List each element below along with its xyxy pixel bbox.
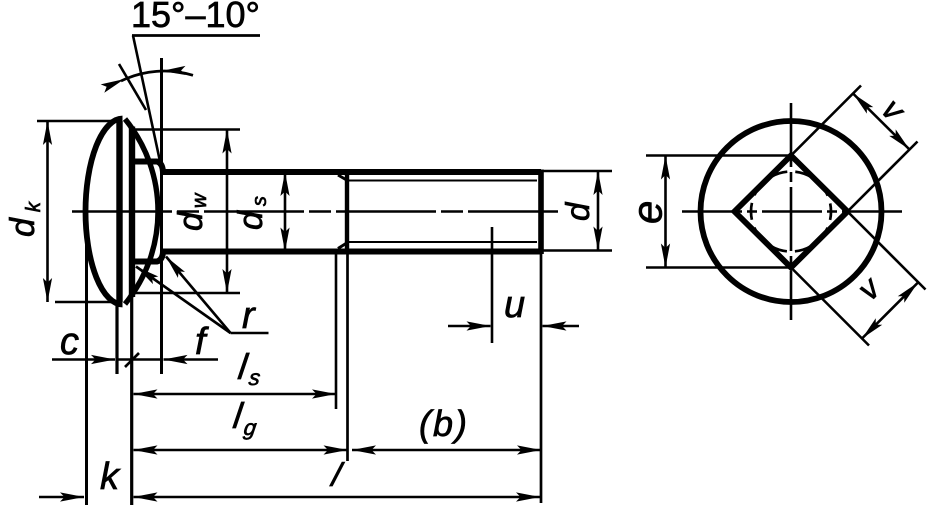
dome face angle line (133, 36, 161, 167)
v bottom dimension line (862, 283, 918, 339)
v top extension line through top vertex (779, 86, 861, 168)
v top extension line through right vertex (836, 142, 918, 224)
k dimension line left (39, 496, 84, 499)
f dimension line right (164, 358, 219, 361)
u dimension line left (448, 325, 491, 328)
end view head circle (701, 121, 882, 302)
head bearing face line (129, 127, 135, 298)
angle dimension arc (121, 71, 193, 81)
svg-text:d: d (559, 201, 596, 221)
dk dimension extension bottom (55, 301, 118, 304)
thread start chamfer top (338, 175, 348, 181)
u dimension line right (543, 325, 580, 328)
d dimension line (597, 171, 600, 251)
thread minor diameter bottom line (348, 241, 537, 243)
lg right extension line (346, 253, 349, 461)
dw dimension extension top (133, 128, 240, 131)
lg dimension line (134, 449, 348, 452)
end view hidden shaft circle (751, 172, 831, 252)
e dimension line (664, 156, 667, 268)
angle arc arrowhead left (101, 75, 127, 93)
ls right extension line (335, 254, 338, 409)
c/f boundary slash (125, 353, 139, 367)
thread start chamfer bottom (338, 243, 348, 249)
d dimension extension bottom (543, 249, 612, 252)
svg-text:r: r (242, 295, 256, 337)
r leader arrow to head fillet (136, 267, 231, 334)
dk dimension extension top (37, 120, 118, 123)
svg-text:u: u (504, 284, 525, 326)
thread minor diameter top line (348, 180, 537, 182)
dk dimension line (46, 121, 49, 302)
thread start boundary (345, 172, 349, 252)
bolt end face (538, 170, 544, 255)
c left extension line (115, 303, 118, 374)
under-head dome silhouette arc (125, 119, 158, 304)
svg-text:k: k (100, 456, 121, 498)
e dimension extension bottom (646, 266, 791, 269)
svg-text:e: e (624, 201, 671, 224)
b dimension line (352, 449, 541, 452)
angle extension tick (119, 64, 146, 110)
r leader elbow (231, 332, 269, 335)
svg-text:15°–10°: 15°–10° (131, 0, 260, 35)
head rim line (116, 121, 122, 302)
k left extension line (85, 214, 88, 505)
square neck top edge (130, 162, 163, 173)
head face extension line down (130, 296, 133, 505)
end face extension line down (540, 253, 543, 503)
v top dimension line (853, 94, 910, 150)
v bottom extension line through bottom vertex (779, 256, 869, 346)
angle arc arrowhead right (161, 66, 185, 76)
l dimension line (134, 496, 541, 499)
v bottom extension line through right vertex (836, 200, 926, 290)
svg-text:c: c (60, 321, 79, 363)
ls dimension line (134, 393, 337, 396)
d dimension extension top (543, 170, 612, 173)
svg-text:(b): (b) (419, 403, 469, 444)
end view vertical centerline (790, 103, 793, 320)
angle leader line under 15-10 text (132, 34, 260, 37)
c dimension line left (52, 358, 115, 361)
end view horizontal centerline (682, 210, 903, 213)
shaft bottom edge (160, 249, 541, 255)
r leader arrow to fillet (166, 257, 231, 334)
shaft top edge (160, 169, 541, 175)
dw dimension extension bottom (133, 292, 240, 295)
square neck bottom edge (130, 252, 163, 262)
e dimension extension top (646, 154, 791, 157)
end view square neck (735, 156, 848, 268)
vertical reference line (160, 58, 163, 374)
u extension line (491, 227, 494, 343)
ds dimension line (284, 172, 287, 252)
c dimension connector (118, 358, 160, 361)
bolt head dome outline (86, 119, 123, 305)
dw dimension line (226, 130, 229, 294)
centerline bolt axis (72, 210, 558, 213)
